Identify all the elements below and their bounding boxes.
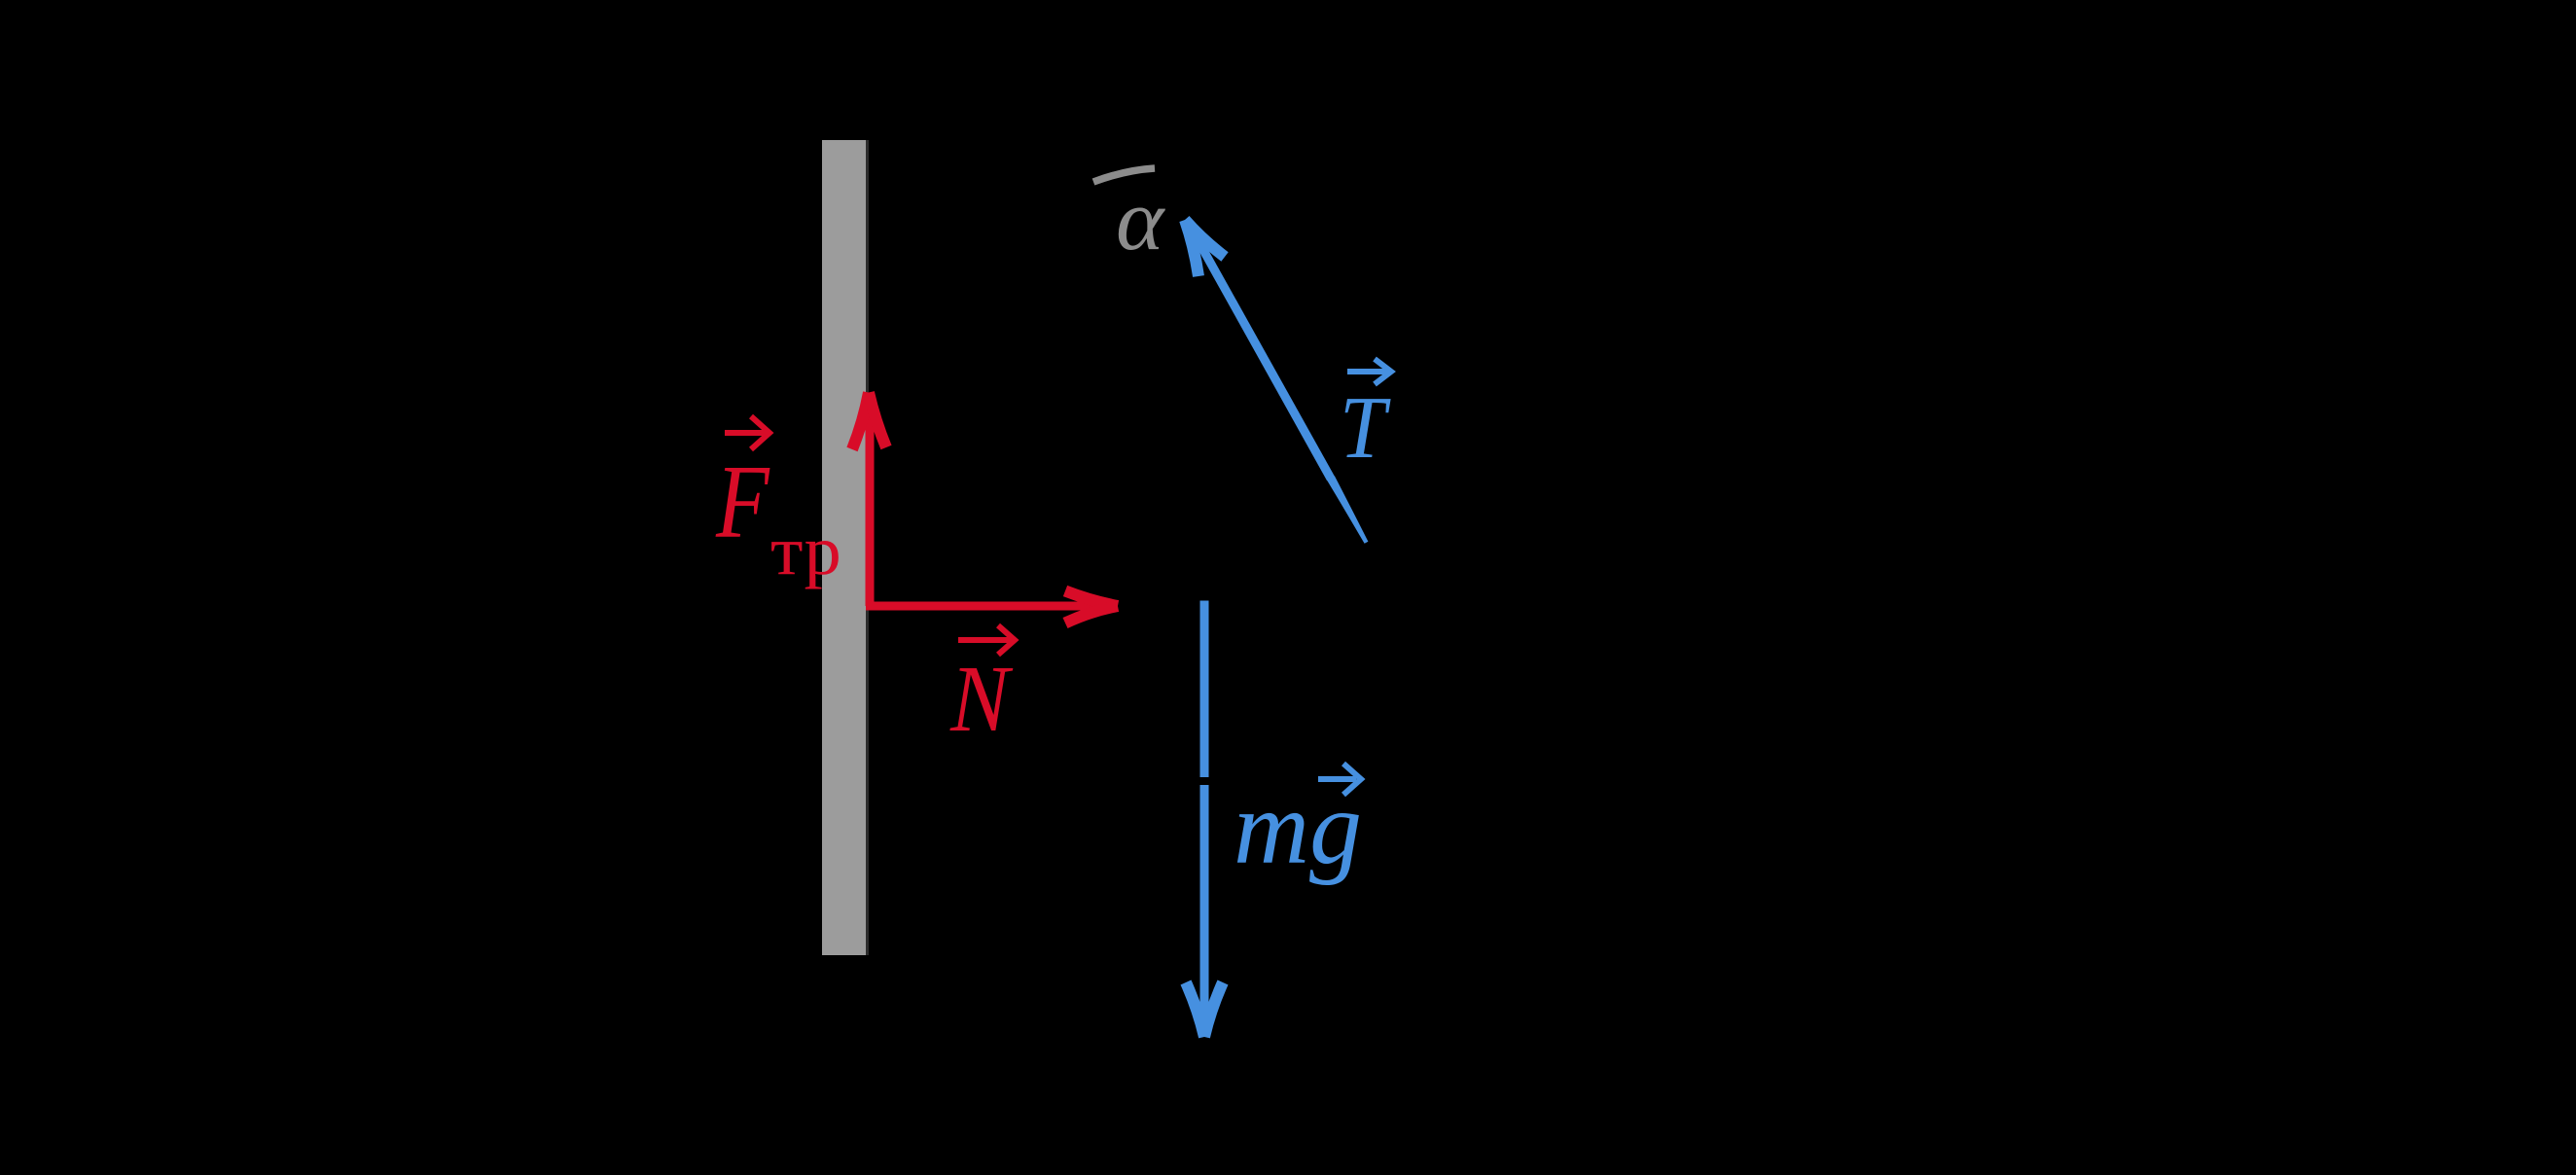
svg-text:F: F [715,445,770,560]
wall (gray vertical bar) [822,140,869,955]
tension arrow T (blue, up-left at angle) [1185,220,1368,544]
label N (vector N) [949,625,1015,752]
normal force arrow N (red, to the right) [866,591,1118,623]
svg-text:N: N [949,648,1013,752]
label mg (vector mg) [1234,764,1362,886]
svg-text:T: T [1340,379,1391,478]
svg-text:α: α [1116,171,1165,268]
angle arc (gray) [1093,168,1155,182]
weight arrow mg (blue, straight down) [1186,601,1223,1038]
svg-text:mg: mg [1234,770,1362,886]
label T (vector T) [1340,359,1391,478]
friction force arrow F_tr (red, up along wall) [852,393,886,607]
angle label alpha (gray) [1116,171,1165,268]
label F_tr (vector F with subscript tr) [715,416,841,589]
svg-text:тр: тр [770,513,841,589]
